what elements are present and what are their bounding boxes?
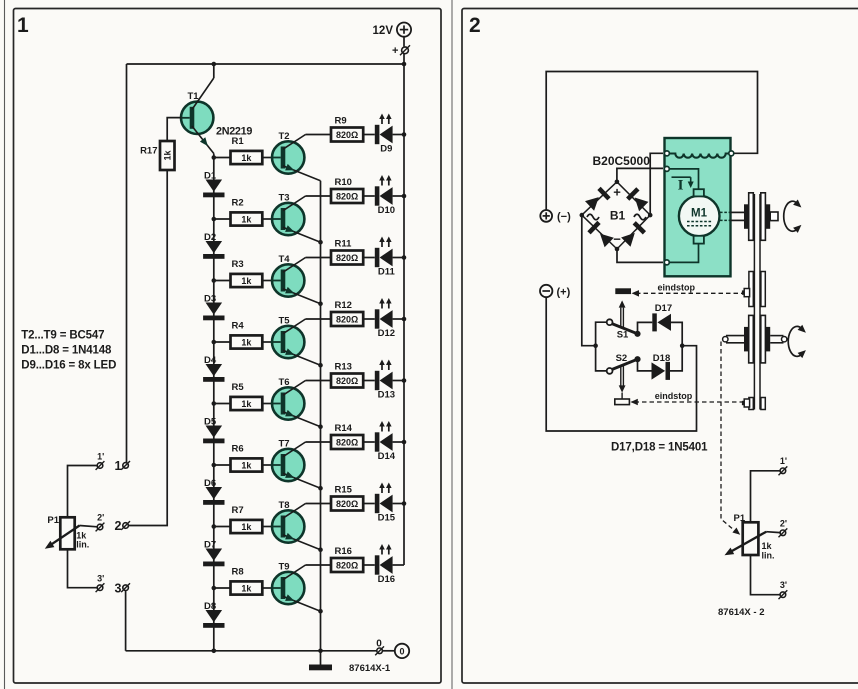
wire R17 to terminal 2: [128, 170, 167, 526]
resistor R9: [331, 116, 363, 142]
svg-text:D4: D4: [204, 355, 217, 366]
svg-text:820Ω: 820Ω: [336, 437, 358, 447]
motor terminal armature: [664, 166, 669, 171]
label 2N2219: [216, 126, 252, 138]
output circle 0: [395, 644, 409, 658]
svg-text:2': 2': [780, 518, 787, 528]
label 3': [97, 574, 104, 584]
wire R2 to T3 base: [262, 218, 272, 220]
label 87614X-1: [349, 663, 391, 674]
label T5: [279, 316, 291, 327]
wire R8 to T9 base: [262, 587, 272, 589]
node emitter T6: [318, 424, 323, 429]
motor field coil: [667, 154, 731, 158]
svg-text:R12: R12: [335, 300, 352, 311]
wire P1 top to 1' right: [751, 471, 781, 523]
potentiometer P1: [45, 517, 80, 549]
terminal 2': [96, 523, 105, 532]
svg-text:T7: T7: [279, 439, 290, 450]
label 0 terminal: [376, 639, 382, 650]
svg-text:T5: T5: [279, 316, 291, 327]
diode D7: [203, 549, 224, 567]
svg-text:B20C5000: B20C5000: [593, 154, 651, 168]
wire supply to + terminal: [403, 37, 405, 47]
svg-text:D5: D5: [204, 416, 217, 427]
label + at terminal: [392, 45, 398, 57]
wire terminal 3 to bottom rail: [125, 591, 127, 651]
wire D9 to right rail: [393, 134, 404, 136]
node emitter T9: [318, 609, 323, 614]
svg-text:2': 2': [97, 513, 104, 523]
node T1 collector: [212, 62, 217, 67]
svg-text:S1: S1: [617, 329, 629, 340]
label eindstop S2: [655, 391, 693, 401]
mech link dashed to P1: [721, 342, 740, 535]
wire bottom rail: [126, 650, 377, 652]
transistor T3: [272, 196, 321, 242]
svg-text:820Ω: 820Ω: [336, 376, 358, 386]
svg-text:eindstop: eindstop: [658, 283, 696, 293]
terminal 0: [375, 646, 384, 655]
label 1': [97, 452, 104, 462]
wire rail to R2: [214, 218, 231, 220]
svg-text:12V: 12V: [373, 25, 394, 37]
resistor R11: [331, 239, 363, 265]
svg-text:D18: D18: [653, 353, 670, 364]
wire T8 collector to R15: [306, 503, 332, 505]
rotation arrow top: [784, 200, 802, 233]
label 3' right: [780, 580, 787, 590]
node base R3: [212, 278, 217, 283]
terminal 1: [121, 461, 130, 470]
wire R13 to LED D13: [363, 380, 375, 382]
svg-text:1k: 1k: [762, 541, 773, 551]
svg-text:R3: R3: [232, 259, 244, 270]
svg-text:1k: 1k: [241, 214, 252, 224]
node right rail D15: [402, 501, 407, 506]
wire top rail: [127, 63, 405, 65]
pulley bottom shaft left: [723, 336, 744, 343]
label D1: [204, 170, 217, 181]
label D18: [653, 353, 670, 364]
wire left rail to terminal 1: [126, 64, 128, 463]
diode D17: [652, 313, 671, 331]
resistor R16: [331, 546, 363, 572]
svg-text:+: +: [392, 45, 398, 57]
label T4: [279, 254, 291, 265]
switch S1: [607, 319, 641, 337]
node right rail D9: [402, 132, 407, 137]
wire R3 to T4 base: [262, 280, 272, 282]
svg-text:D1...D8 = 1N4148: D1...D8 = 1N4148: [21, 345, 112, 357]
svg-text:D8: D8: [204, 601, 216, 612]
wire minus loop to switch junction: [546, 297, 696, 431]
motor terminal coil left: [664, 151, 669, 156]
svg-text:lin.: lin.: [762, 551, 775, 561]
motor terminal bottom: [664, 260, 669, 265]
wire motor armature lead: [667, 169, 699, 189]
svg-text:−: −: [613, 232, 621, 247]
label P1 right: [734, 513, 746, 524]
node base R7: [212, 524, 217, 529]
svg-text:D17,D18 = 1N5401: D17,D18 = 1N5401: [611, 442, 708, 454]
label D5: [204, 416, 217, 427]
node base R2: [212, 217, 217, 222]
node bridge bottom: [615, 247, 620, 252]
motor brush bottom: [694, 236, 704, 244]
eindstop pad S2: [615, 399, 630, 405]
node top rail / right rail: [402, 62, 407, 67]
svg-text:D3: D3: [204, 293, 216, 304]
svg-text:3: 3: [115, 581, 122, 595]
svg-text:P1: P1: [47, 515, 59, 526]
diode D8: [203, 610, 224, 628]
node right rail D13: [402, 378, 407, 383]
wire R15 to LED D15: [363, 503, 375, 505]
supply terminal circle +: [397, 23, 411, 37]
resistor R14: [331, 423, 363, 449]
pulley bottom shaft right: [770, 336, 787, 343]
node switch left junction: [593, 343, 598, 348]
text transistor equivalence: [21, 330, 104, 342]
label 1k right: [762, 541, 773, 551]
wire P1 wiper to 2': [80, 526, 98, 527]
svg-text:D10: D10: [378, 205, 395, 216]
wire bridge bottom to motor: [617, 249, 663, 262]
LED D12: [375, 298, 395, 339]
wire R7 to T8 base: [262, 526, 272, 528]
label P1: [47, 515, 59, 526]
svg-text:D16: D16: [378, 574, 395, 585]
LED D14: [375, 421, 396, 462]
wire R5 to T6 base: [262, 403, 272, 405]
svg-text:1': 1': [97, 452, 104, 462]
wire S1 to D17: [638, 322, 653, 333]
wire P1 top to 1': [68, 466, 98, 518]
svg-text:D9...D16 = 8x LED: D9...D16 = 8x LED: [21, 360, 116, 372]
wire T4 collector to R11: [306, 257, 332, 259]
rotation arrow bottom: [788, 325, 806, 358]
wire S2 to D18: [638, 359, 652, 371]
node right rail D11: [402, 255, 407, 260]
svg-text:1: 1: [17, 14, 29, 37]
label B20C5000: [593, 154, 651, 168]
svg-text:1k: 1k: [241, 337, 252, 347]
switch S2: [607, 356, 641, 374]
label T3: [279, 193, 290, 204]
node bridge left: [580, 213, 585, 218]
transistor T9: [272, 565, 321, 611]
node base R5: [212, 401, 217, 406]
panel 2 number: [469, 14, 481, 37]
label T8: [279, 500, 290, 511]
resistor R7: [231, 505, 263, 533]
svg-text:D14: D14: [378, 451, 396, 462]
label B1: [610, 209, 626, 223]
svg-text:820Ω: 820Ω: [336, 560, 358, 570]
node base R1: [212, 155, 217, 160]
terminal + connector: [400, 45, 410, 55]
label S1: [617, 329, 629, 340]
symbol ~ left: [587, 214, 599, 220]
svg-text:P1: P1: [734, 513, 746, 524]
wire R9 to LED D9: [363, 134, 375, 136]
node emitter T5: [318, 363, 323, 368]
page left edge line: [4, 0, 6, 689]
svg-text:S2: S2: [616, 353, 628, 364]
diode D4: [203, 364, 224, 382]
wire P1 bottom to 3' right: [751, 555, 781, 595]
svg-text:D9: D9: [380, 144, 392, 155]
wire motor bottom lead: [667, 244, 699, 263]
label D17: [655, 303, 672, 314]
svg-text:T8: T8: [279, 500, 290, 511]
svg-text:R13: R13: [335, 362, 352, 373]
label D3: [204, 293, 216, 304]
wire + terminal to rail: [403, 54, 405, 64]
resistor R5: [231, 382, 263, 410]
terminal circle minus(plus): [540, 285, 552, 297]
motor shaft to pulley lower line: [731, 219, 745, 221]
wire D11 to right rail: [393, 257, 404, 259]
svg-text:R7: R7: [232, 505, 244, 516]
transistor T7: [272, 442, 321, 488]
terminal circle plus(minus): [540, 210, 552, 222]
transistor T5: [272, 319, 321, 365]
switch S1 actuator: [619, 300, 626, 327]
wire D14 to right rail: [393, 441, 404, 443]
svg-text:820Ω: 820Ω: [336, 314, 358, 324]
wire R1 to T2 base: [262, 157, 272, 159]
svg-text:D2: D2: [204, 232, 216, 243]
svg-text:D13: D13: [378, 390, 395, 401]
LED D11: [375, 237, 396, 278]
wire T5 collector to R12: [306, 318, 332, 320]
svg-text:3': 3': [97, 574, 104, 584]
label D8: [204, 601, 216, 612]
resistor R3: [231, 259, 263, 287]
svg-text:1k: 1k: [241, 153, 252, 163]
svg-text:(+): (+): [557, 287, 571, 299]
LED D16: [375, 544, 395, 585]
motor circle M1: [679, 196, 720, 237]
wire D18 to right junction: [670, 346, 682, 371]
symbol ~ right: [634, 214, 646, 220]
label 2' right: [780, 518, 787, 528]
svg-text:D17: D17: [655, 303, 672, 314]
svg-text:820Ω: 820Ω: [336, 191, 358, 201]
svg-text:T2...T9 = BC547: T2...T9 = BC547: [21, 330, 104, 342]
label 12V: [373, 25, 394, 37]
current arrow I: [672, 177, 694, 193]
bridge diode top-right: [628, 189, 649, 211]
bridge rectifier B1 outline: [582, 182, 650, 249]
svg-text:T3: T3: [279, 193, 290, 204]
node bridge right: [648, 213, 653, 218]
svg-text:1k: 1k: [241, 460, 252, 470]
motor brush top: [694, 189, 704, 196]
transistor T6: [272, 381, 321, 427]
wire bridge left to switches: [582, 215, 596, 346]
switch S2 actuator: [619, 365, 626, 399]
svg-text:D6: D6: [204, 478, 216, 489]
wire T6 collector to R13: [306, 380, 332, 382]
wire diode chain rail: [213, 158, 215, 651]
wire D17 to right junction: [671, 322, 682, 345]
label D4: [204, 355, 217, 366]
motor block: [665, 138, 731, 276]
panel 1 frame: [14, 9, 442, 684]
svg-text:1': 1': [780, 456, 787, 466]
svg-text:1k: 1k: [241, 276, 252, 286]
terminal 3' right: [779, 590, 788, 599]
wire R14 to LED D14: [363, 441, 375, 443]
resistor R12: [331, 300, 363, 326]
node base R8: [212, 586, 217, 591]
text LED equivalence: [21, 360, 116, 372]
text D17 D18 equivalence: [611, 442, 708, 454]
svg-text:2: 2: [469, 14, 481, 37]
belt guide bottom: [742, 398, 765, 410]
wire bridge right to motor coil: [650, 153, 663, 215]
wire 0 terminal to 0 circle: [382, 650, 394, 652]
svg-text:T1: T1: [188, 91, 200, 102]
pulley top shaft stub: [770, 212, 778, 221]
svg-text:T9: T9: [279, 562, 290, 573]
label (plus): [557, 287, 571, 299]
svg-text:R11: R11: [335, 239, 353, 250]
svg-text:D15: D15: [378, 513, 396, 524]
svg-text:T2: T2: [279, 131, 290, 142]
svg-text:R4: R4: [232, 321, 245, 332]
wire T1 base to R17: [167, 118, 181, 141]
node base R6: [212, 463, 217, 468]
label D6: [204, 478, 216, 489]
resistor R1: [231, 136, 263, 164]
LED D9: [375, 114, 393, 155]
resistor R6: [231, 444, 263, 472]
svg-text:820Ω: 820Ω: [336, 499, 358, 509]
wire rail to R4: [214, 341, 231, 343]
wire R10 to LED D10: [363, 195, 375, 197]
wire D16 to right rail: [393, 564, 404, 566]
terminal 1' right: [779, 466, 788, 475]
label (minus): [557, 211, 571, 223]
svg-text:R9: R9: [335, 116, 347, 127]
label 87614X-2: [718, 607, 764, 618]
wire rail to R7: [214, 526, 231, 528]
wire R4 to T5 base: [262, 341, 272, 343]
wire rail to R6: [214, 464, 231, 466]
resistor R4: [231, 321, 263, 349]
svg-text:R6: R6: [232, 444, 244, 455]
wire D10 to right rail: [393, 195, 404, 197]
label - bridge: [613, 232, 621, 247]
wire T3 collector to R10: [306, 195, 332, 197]
eindstop dashed arrow S1: [632, 290, 744, 297]
svg-text:lin.: lin.: [76, 540, 89, 550]
wire D13 to right rail: [393, 380, 404, 382]
wire T1 collector: [213, 64, 215, 78]
wire bridge top to motor: [617, 168, 663, 181]
wire R12 to LED D12: [363, 318, 375, 320]
wire P1 wiper to 2' right: [766, 531, 780, 534]
svg-text:2: 2: [115, 519, 122, 533]
svg-text:1k: 1k: [241, 399, 252, 409]
eindstop pad S1: [615, 288, 631, 294]
wire R11 to LED D11: [363, 257, 375, 259]
label eindstop S1: [658, 283, 696, 293]
svg-text:M1: M1: [691, 208, 708, 220]
diode D18: [652, 362, 671, 380]
svg-text:R2: R2: [232, 198, 244, 209]
wire plus terminal to motor top: [546, 72, 757, 210]
svg-text:R8: R8: [232, 567, 244, 578]
wire T2 collector to R9: [306, 134, 332, 136]
node switch right junction: [680, 343, 685, 348]
terminal 2: [121, 521, 130, 530]
potentiometer P1 right: [725, 522, 767, 555]
bridge diode bottom-left: [589, 222, 614, 247]
label D2: [204, 232, 216, 243]
resistor R15: [331, 485, 363, 511]
label 1' right: [780, 456, 787, 466]
transistor T8: [272, 504, 321, 550]
svg-text:D7: D7: [204, 539, 216, 550]
label lin. right: [762, 551, 775, 561]
resistor R10: [331, 177, 363, 203]
svg-text:B1: B1: [610, 209, 626, 223]
diode D2: [203, 241, 224, 259]
svg-text:D12: D12: [378, 328, 395, 339]
svg-text:R10: R10: [335, 177, 352, 188]
label T2: [279, 131, 290, 142]
panel 1 number: [17, 14, 29, 37]
svg-text:R14: R14: [335, 423, 353, 434]
node emitter T3: [318, 240, 323, 245]
wire R16 to LED D16: [363, 564, 375, 566]
bridge diode bottom-right: [621, 223, 644, 247]
node emitter T8: [318, 547, 323, 552]
svg-text:820Ω: 820Ω: [336, 130, 358, 140]
node base R4: [212, 340, 217, 345]
motor terminal coil right: [729, 151, 734, 156]
label T7: [279, 439, 290, 450]
diode D3: [203, 303, 224, 321]
pulley top: [744, 193, 770, 241]
wire D12 to right rail: [393, 318, 404, 320]
wire T9 collector to R16: [306, 564, 332, 566]
node emitter T4: [318, 301, 323, 306]
wire to S1 pole: [596, 322, 607, 346]
terminal 1': [96, 461, 105, 470]
svg-text:D11: D11: [378, 267, 396, 278]
transistor T4: [272, 258, 321, 304]
pulley bottom: [744, 315, 770, 363]
wire to ground: [320, 651, 322, 665]
transistor T1: [181, 78, 214, 154]
motor shaft to pulley: [731, 211, 745, 213]
label P1 lin.: [76, 540, 89, 550]
label T9: [279, 562, 290, 573]
transistor T2: [272, 135, 321, 181]
node bottom emitter rail: [318, 649, 323, 654]
resistor R17: [160, 141, 175, 170]
eindstop dashed arrow S2: [630, 399, 742, 405]
node bottom diode chain: [212, 649, 217, 654]
bridge diode top-left: [585, 188, 609, 210]
svg-text:820Ω: 820Ω: [336, 253, 358, 263]
